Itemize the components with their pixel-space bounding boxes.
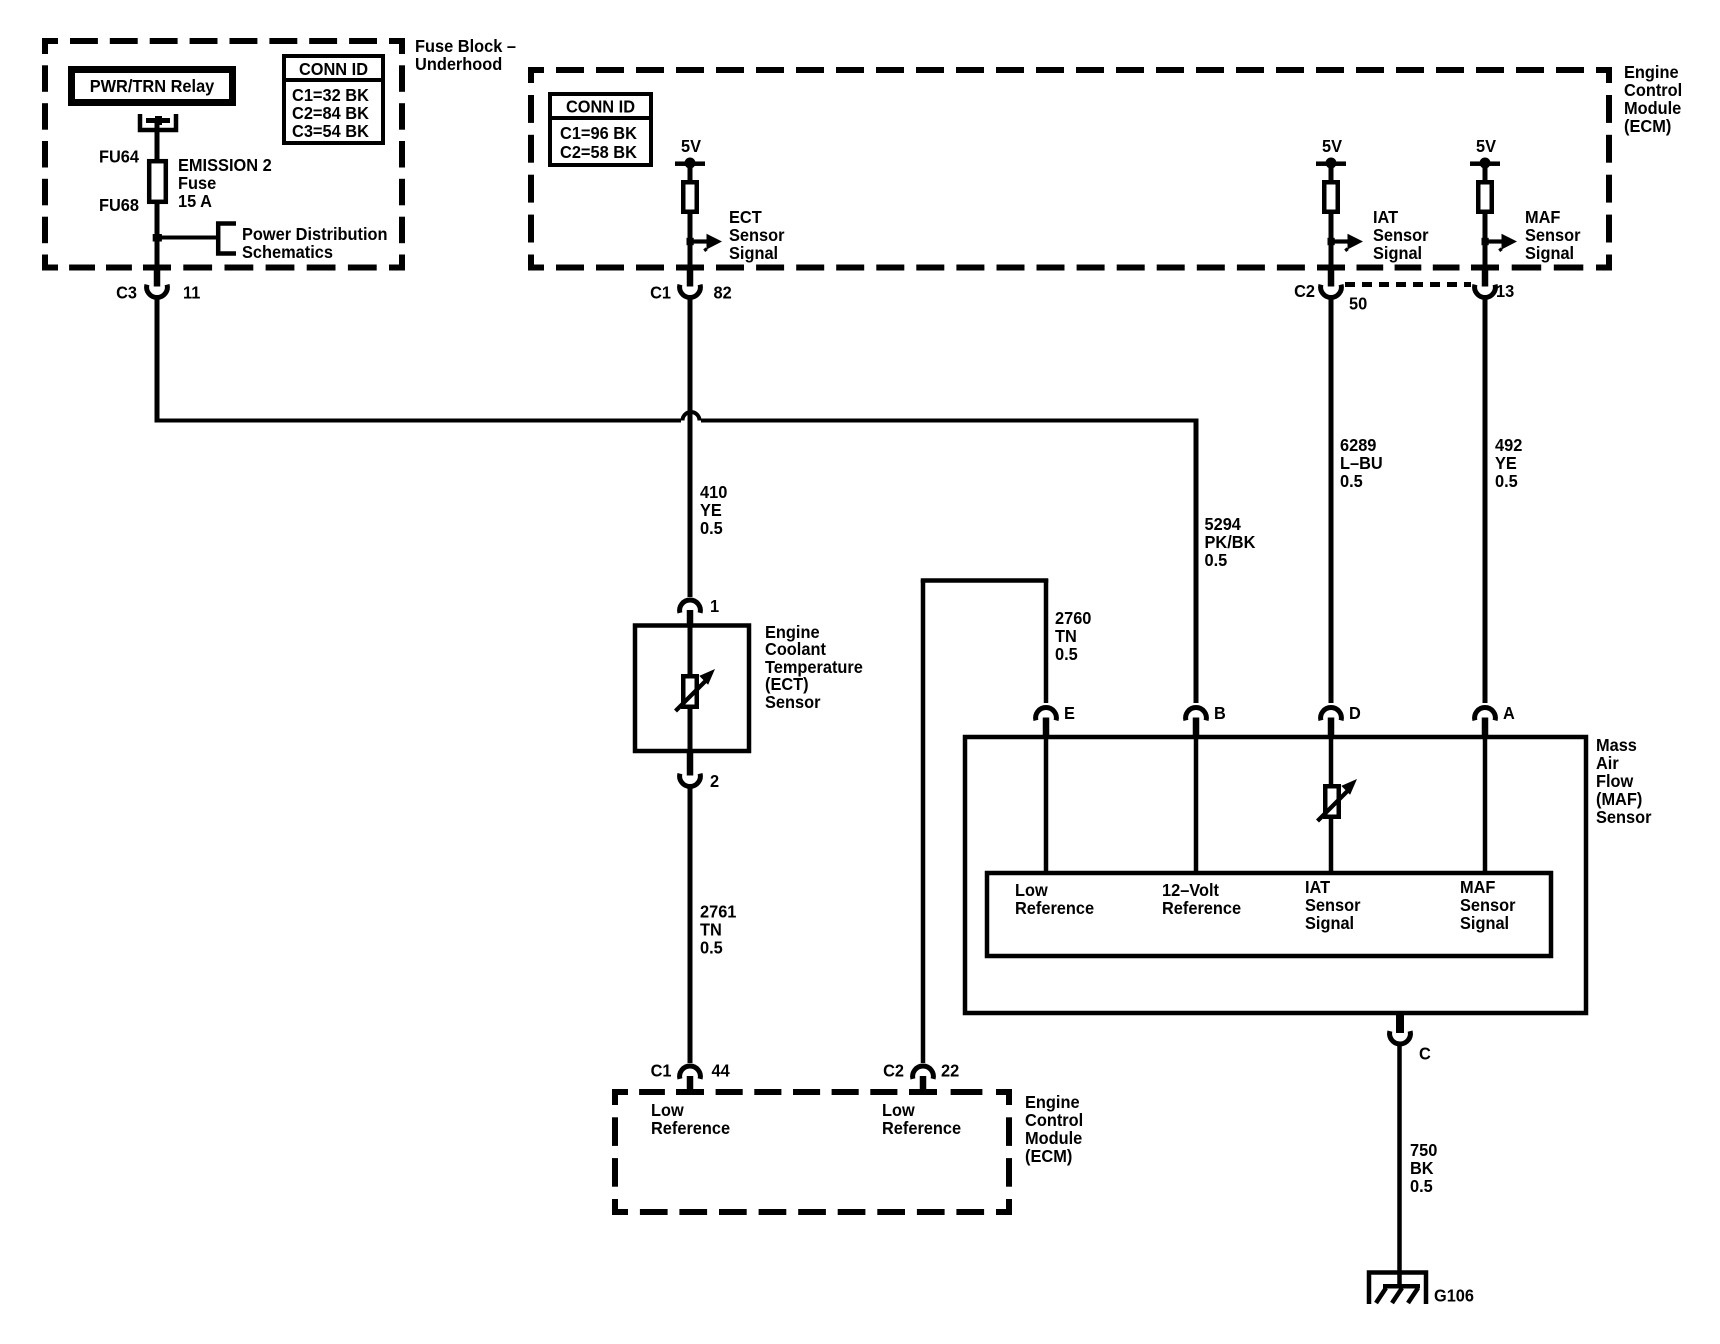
- svg-text:0.5: 0.5: [1410, 1176, 1433, 1196]
- IAT sensor signal arrow: [1328, 234, 1364, 251]
- resistor ECT pull-up: [683, 182, 697, 212]
- svg-text:82: 82: [714, 283, 732, 303]
- svg-text:410: 410: [700, 482, 728, 502]
- svg-text:A: A: [1503, 703, 1515, 723]
- svg-text:Air: Air: [1596, 753, 1619, 773]
- fuse block - underhood outline (dashed): [42, 38, 405, 271]
- 5V supply (ECT pull-up): [675, 136, 705, 180]
- connector B: [1186, 703, 1226, 737]
- svg-text:Sensor: Sensor: [729, 225, 785, 245]
- svg-text:Reference: Reference: [1162, 898, 1241, 918]
- svg-text:Engine: Engine: [1624, 62, 1679, 82]
- svg-text:C1=96 BK: C1=96 BK: [560, 123, 637, 143]
- svg-text:CONN ID: CONN ID: [566, 97, 635, 117]
- svg-text:C3: C3: [116, 283, 137, 303]
- svg-text:IAT: IAT: [1305, 877, 1330, 897]
- connector D: [1321, 703, 1361, 737]
- connector C2 pin 22: [883, 1061, 959, 1093]
- svg-text:Schematics: Schematics: [242, 242, 333, 262]
- ECM label (bottom): [1025, 1092, 1083, 1166]
- svg-text:C3=54 BK: C3=54 BK: [292, 121, 369, 141]
- svg-text:Signal: Signal: [1305, 913, 1354, 933]
- svg-text:L–BU: L–BU: [1340, 453, 1383, 473]
- resistor IAT pull-up: [1324, 182, 1338, 212]
- CONN ID table (fuse block): [284, 56, 383, 143]
- wire through ECT sensor: [688, 625, 693, 752]
- ECM box (top) outline (dashed): [528, 67, 1612, 271]
- 5V supply (IAT pull-up): [1316, 136, 1346, 180]
- MAF internal wire E: [1044, 737, 1049, 873]
- svg-text:YE: YE: [700, 500, 722, 520]
- MAF internal wire A: [1483, 737, 1488, 873]
- power distribution schematics pointer: [157, 224, 388, 263]
- svg-text:C1=32 BK: C1=32 BK: [292, 85, 369, 105]
- wire resistor to C2-50: [1329, 212, 1334, 267]
- svg-text:13: 13: [1496, 281, 1514, 301]
- svg-text:Reference: Reference: [882, 1118, 961, 1138]
- svg-text:YE: YE: [1495, 453, 1517, 473]
- wire fuse to C3 with junction: [155, 202, 160, 267]
- connector C: [1390, 1013, 1432, 1064]
- CONN ID table (ECM): [550, 94, 651, 165]
- wire C3-11 down and main horizontal run (hop at ECT wire): [155, 296, 1199, 423]
- MAF internal wire D: [1329, 737, 1334, 873]
- MAF sensor label: [1596, 735, 1652, 827]
- label low reference (C2-22): [882, 1100, 961, 1138]
- svg-text:2761: 2761: [700, 902, 737, 922]
- svg-text:Fuse Block –: Fuse Block –: [415, 36, 516, 56]
- svg-text:492: 492: [1495, 435, 1523, 455]
- fuse block - underhood label: [415, 36, 516, 74]
- svg-text:Underhood: Underhood: [415, 54, 502, 74]
- connector C1 pin 82: [650, 265, 732, 303]
- connector E: [1036, 703, 1075, 737]
- svg-text:Fuse: Fuse: [178, 173, 216, 193]
- svg-text:ECT: ECT: [729, 207, 762, 227]
- connector shell dotted link C2-50 to 13: [1345, 282, 1471, 287]
- svg-text:CONN ID: CONN ID: [299, 59, 368, 79]
- connector C1 pin 44: [651, 1061, 730, 1093]
- svg-text:6289: 6289: [1340, 435, 1377, 455]
- connector A: [1475, 703, 1516, 737]
- wire 6289 L-BU 0.5: [1329, 296, 1334, 703]
- svg-text:0.5: 0.5: [1205, 550, 1228, 570]
- label low reference (C1-44): [651, 1100, 730, 1138]
- svg-text:C2=84 BK: C2=84 BK: [292, 103, 369, 123]
- svg-text:(ECT): (ECT): [765, 674, 809, 694]
- svg-text:44: 44: [712, 1061, 730, 1081]
- wire 2761 TN 0.5: [688, 786, 693, 1064]
- svg-text:MAF: MAF: [1525, 207, 1561, 227]
- svg-text:MAF: MAF: [1460, 877, 1496, 897]
- svg-text:C: C: [1419, 1044, 1431, 1064]
- label MAF Sensor Signal: [1525, 207, 1581, 263]
- svg-text:FU64: FU64: [99, 147, 139, 167]
- svg-text:C2=58 BK: C2=58 BK: [560, 142, 637, 162]
- svg-text:C2: C2: [1294, 281, 1315, 301]
- wire 750 BK 0.5: [1397, 1043, 1402, 1288]
- svg-text:TN: TN: [700, 920, 722, 940]
- svg-text:Signal: Signal: [1460, 913, 1509, 933]
- svg-text:TN: TN: [1055, 626, 1077, 646]
- svg-text:5294: 5294: [1205, 514, 1242, 534]
- label 410 YE 0.5: [700, 482, 728, 538]
- svg-text:750: 750: [1410, 1140, 1438, 1160]
- ECM box (bottom) outline (dashed): [612, 1089, 1012, 1215]
- svg-text:Coolant: Coolant: [765, 639, 826, 659]
- label 750 BK 0.5: [1410, 1140, 1438, 1196]
- svg-text:Reference: Reference: [1015, 898, 1094, 918]
- fuse FU64/FU68 EMISSION 2 15 A: [99, 147, 272, 216]
- relay contact terminal symbol: [140, 114, 176, 130]
- svg-text:Signal: Signal: [729, 243, 778, 263]
- label 6289 L-BU 0.5: [1340, 435, 1383, 491]
- svg-text:Sensor: Sensor: [1305, 895, 1361, 915]
- svg-text:IAT: IAT: [1373, 207, 1398, 227]
- wire 2760 TN 0.5 low-reference jog: [921, 578, 1049, 1063]
- svg-text:22: 22: [941, 1061, 959, 1081]
- svg-text:5V: 5V: [681, 136, 701, 156]
- svg-text:Low: Low: [1015, 880, 1048, 900]
- svg-text:BK: BK: [1410, 1158, 1434, 1178]
- svg-text:FU68: FU68: [99, 195, 139, 215]
- svg-text:Sensor: Sensor: [1596, 807, 1652, 827]
- svg-text:Sensor: Sensor: [1525, 225, 1581, 245]
- connector 2 (ECT): [680, 751, 720, 791]
- resistor MAF pull-up: [1478, 182, 1492, 212]
- junction node: [153, 234, 162, 242]
- wire resistor to pin 13: [1483, 212, 1488, 267]
- svg-text:E: E: [1064, 703, 1075, 723]
- label ECT Sensor Signal: [729, 207, 785, 263]
- MAF terminal box: [987, 873, 1551, 956]
- ECT sensor box: [635, 626, 749, 752]
- svg-text:12–Volt: 12–Volt: [1162, 880, 1219, 900]
- wire resistor to C1-82: [688, 212, 693, 267]
- svg-text:Signal: Signal: [1373, 243, 1422, 263]
- svg-text:0.5: 0.5: [1340, 471, 1363, 491]
- svg-text:C1: C1: [651, 1061, 672, 1081]
- wire relay to fuse FU64: [155, 123, 160, 160]
- ECT sensor label: [765, 622, 863, 712]
- connector pin 13: [1475, 265, 1515, 301]
- ECT thermistor symbol: [676, 669, 716, 711]
- svg-text:5V: 5V: [1476, 136, 1496, 156]
- svg-text:Power Distribution: Power Distribution: [242, 224, 388, 244]
- relay PWR/TRN Relay: [68, 66, 236, 106]
- svg-text:Sensor: Sensor: [765, 692, 821, 712]
- label 2761 TN 0.5: [700, 902, 737, 958]
- connector C3 pin 11: [116, 265, 200, 303]
- connector C2 pin 50: [1294, 265, 1367, 314]
- svg-text:15 A: 15 A: [178, 191, 212, 211]
- svg-text:Low: Low: [651, 1100, 684, 1120]
- svg-text:Signal: Signal: [1525, 243, 1574, 263]
- label IAT Sensor Signal: [1373, 207, 1429, 263]
- svg-text:0.5: 0.5: [700, 938, 723, 958]
- ECT sensor signal arrow: [687, 234, 723, 251]
- wire 492 YE 0.5: [1483, 296, 1488, 703]
- svg-text:EMISSION 2: EMISSION 2: [178, 155, 272, 175]
- MAF internal wire B: [1194, 737, 1199, 873]
- svg-text:Low: Low: [882, 1100, 915, 1120]
- svg-text:2760: 2760: [1055, 608, 1092, 628]
- connector 1 (ECT): [680, 596, 720, 625]
- wire 410 YE 0.5: [688, 296, 693, 597]
- svg-text:Engine: Engine: [1025, 1092, 1080, 1112]
- svg-text:(ECM): (ECM): [1025, 1146, 1072, 1166]
- svg-text:Module: Module: [1025, 1128, 1083, 1148]
- svg-text:Control: Control: [1624, 80, 1682, 100]
- svg-text:(MAF): (MAF): [1596, 789, 1642, 809]
- svg-text:2: 2: [710, 771, 719, 791]
- svg-text:Sensor: Sensor: [1373, 225, 1429, 245]
- svg-text:Module: Module: [1624, 98, 1682, 118]
- svg-text:Mass: Mass: [1596, 735, 1637, 755]
- svg-text:0.5: 0.5: [1495, 471, 1518, 491]
- svg-text:11: 11: [183, 283, 201, 303]
- ground G106: [1369, 1273, 1474, 1306]
- svg-text:G106: G106: [1434, 1286, 1474, 1306]
- MAF thermistor symbol: [1318, 779, 1358, 821]
- MAF sensor box outline: [965, 737, 1586, 1013]
- svg-text:PWR/TRN Relay: PWR/TRN Relay: [90, 76, 215, 96]
- svg-text:Sensor: Sensor: [1460, 895, 1516, 915]
- svg-text:C2: C2: [883, 1061, 904, 1081]
- svg-text:D: D: [1349, 703, 1361, 723]
- svg-text:5V: 5V: [1322, 136, 1342, 156]
- svg-text:1: 1: [710, 596, 719, 616]
- svg-text:C1: C1: [650, 283, 671, 303]
- wire 5294 PK/BK 0.5 vertical: [1194, 419, 1199, 704]
- svg-text:0.5: 0.5: [700, 518, 723, 538]
- svg-text:PK/BK: PK/BK: [1205, 532, 1256, 552]
- label 492 YE 0.5: [1495, 435, 1523, 491]
- MAF sensor signal arrow: [1482, 234, 1518, 251]
- svg-text:(ECM): (ECM): [1624, 116, 1671, 136]
- label 5294 PK/BK 0.5: [1205, 514, 1256, 570]
- svg-text:Flow: Flow: [1596, 771, 1634, 791]
- svg-text:50: 50: [1349, 294, 1367, 314]
- 5V supply (MAF pull-up): [1470, 136, 1500, 180]
- svg-text:0.5: 0.5: [1055, 644, 1078, 664]
- svg-text:B: B: [1214, 703, 1226, 723]
- svg-text:Control: Control: [1025, 1110, 1083, 1130]
- ECM label (top right): [1624, 62, 1682, 136]
- svg-text:Reference: Reference: [651, 1118, 730, 1138]
- label 2760 TN 0.5: [1055, 608, 1092, 664]
